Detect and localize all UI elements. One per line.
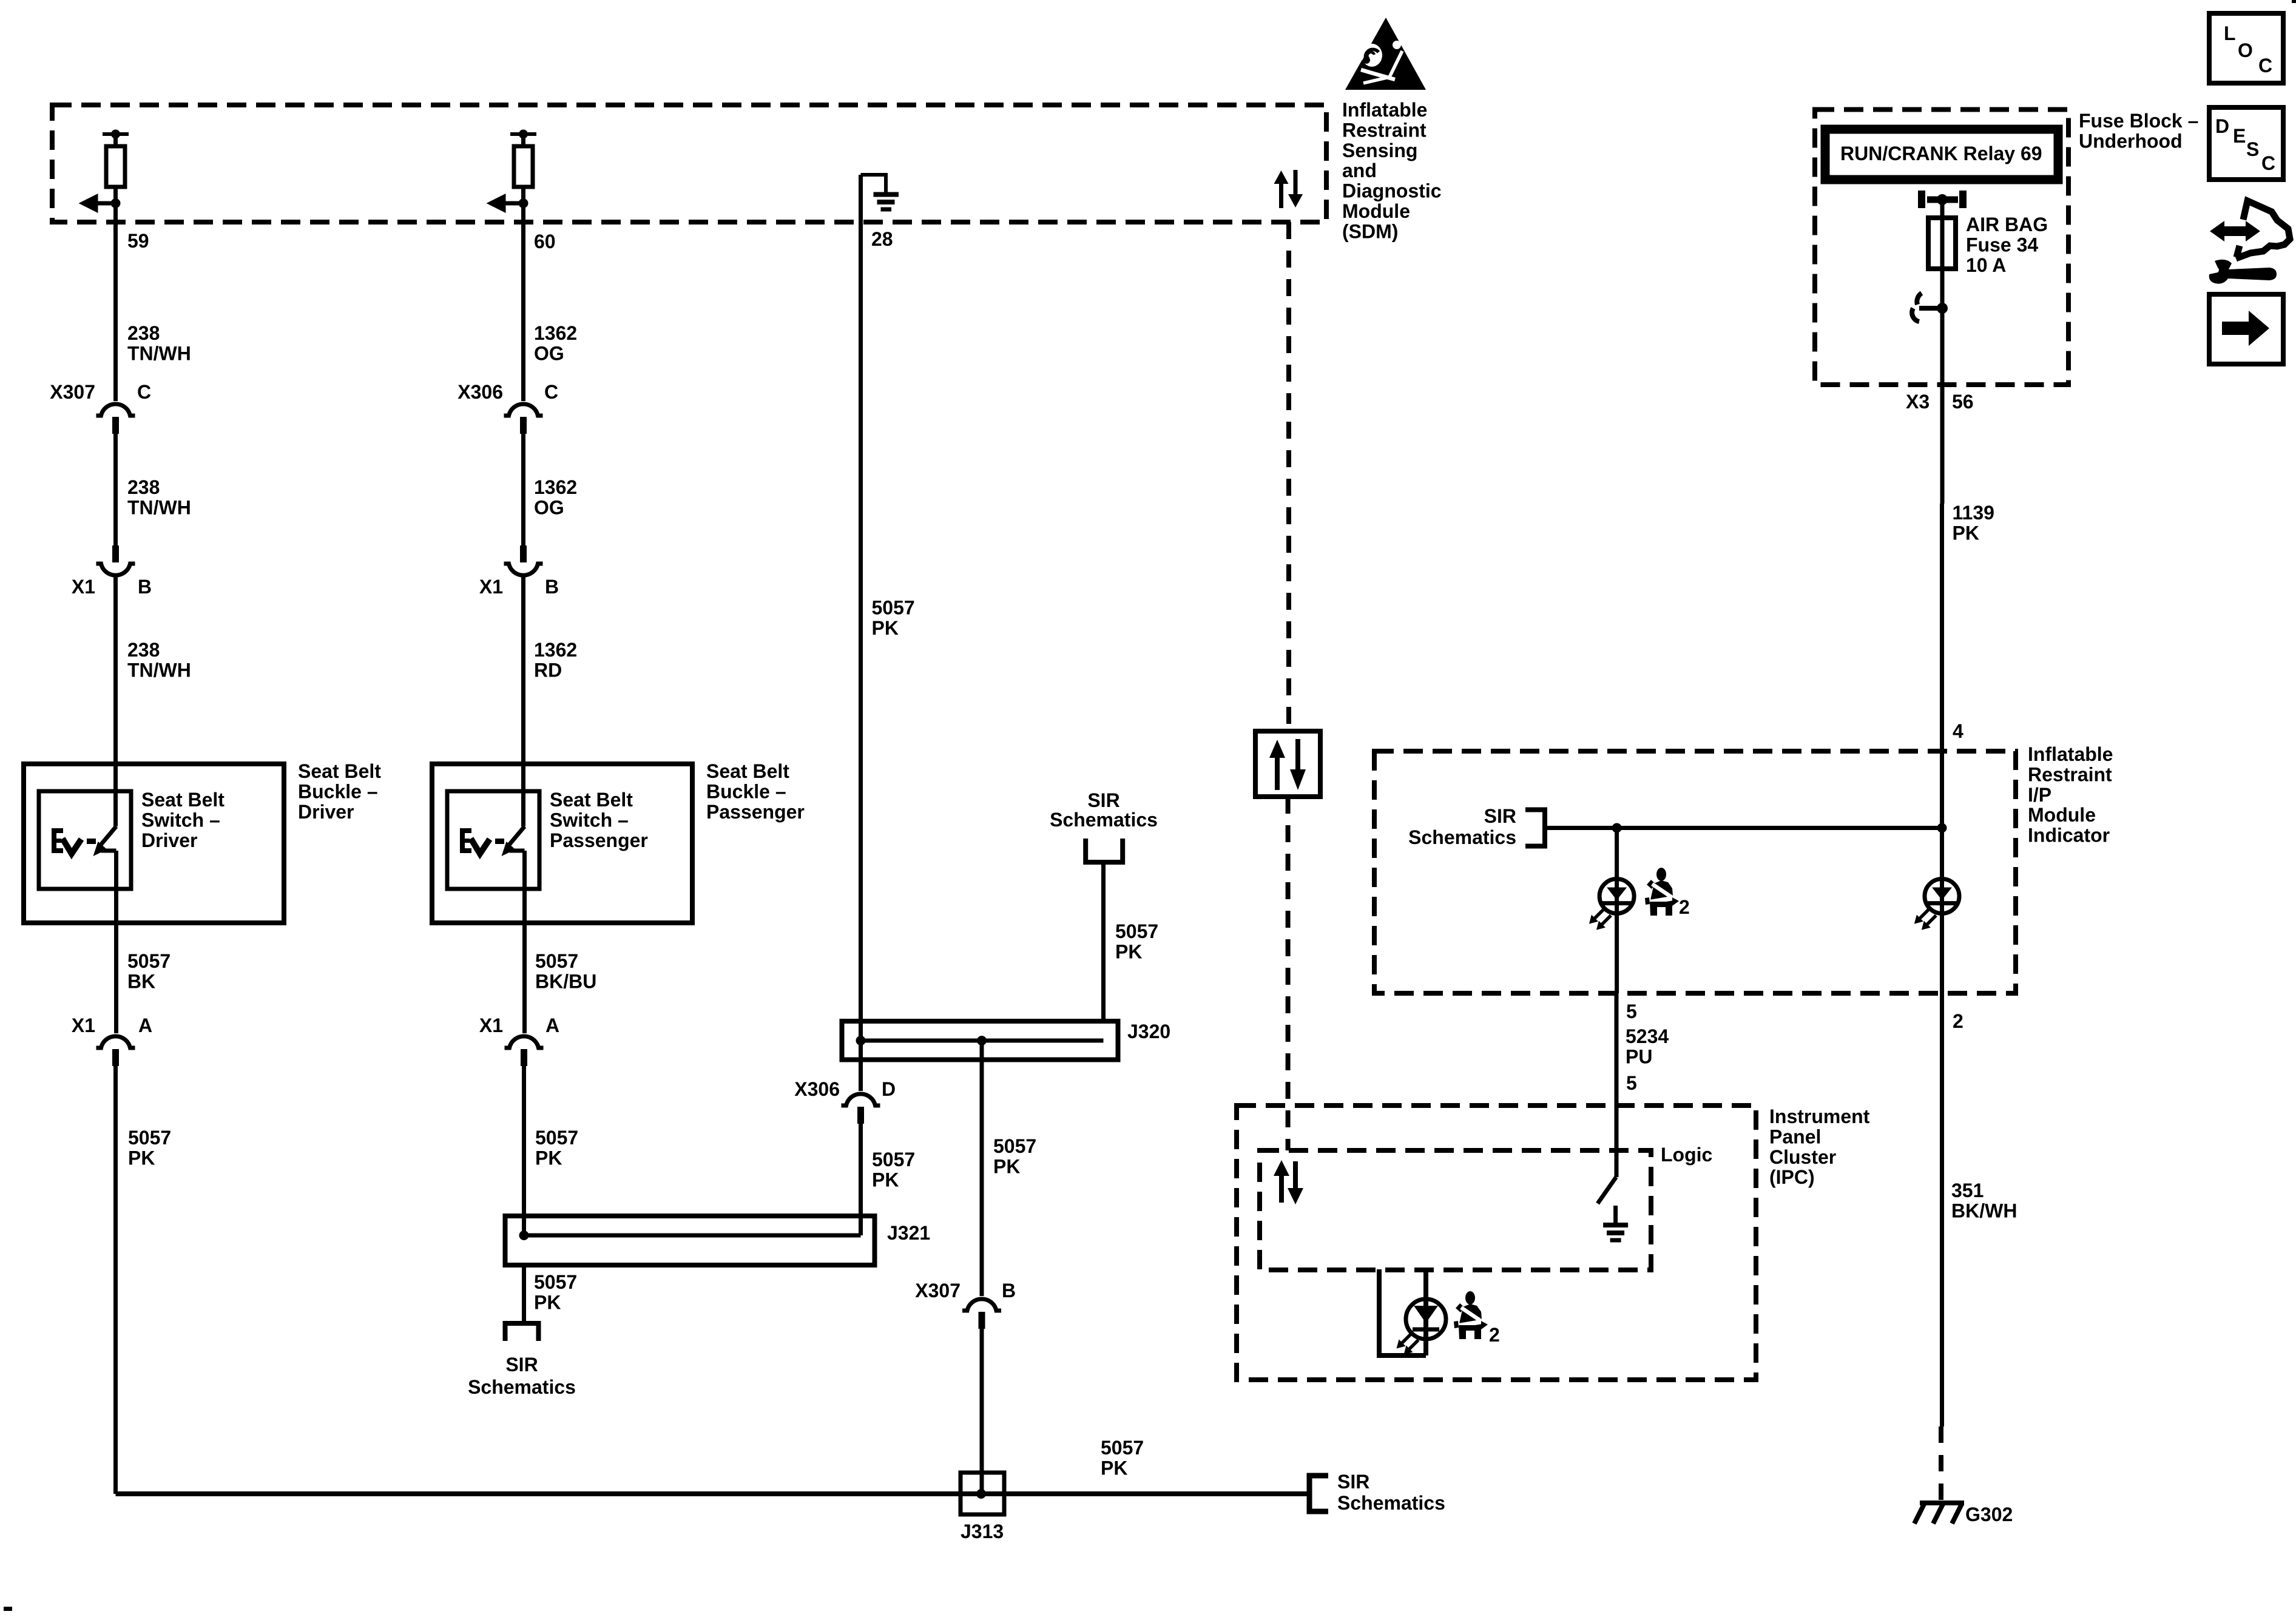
- fuse block underhood dashed box: [1815, 110, 2068, 385]
- SIR schematics pigtail (indicator): [1525, 810, 1545, 846]
- svg-text:5057: 5057: [872, 1149, 915, 1170]
- svg-text:PK: PK: [1953, 522, 1979, 544]
- svg-text:and: and: [1342, 160, 1377, 181]
- connector X306 cavity D: [842, 1094, 880, 1106]
- seat belt buckle driver outer box: [24, 764, 284, 923]
- svg-text:Module: Module: [2028, 804, 2096, 826]
- svg-text:PK: PK: [993, 1155, 1020, 1177]
- wire 5057 BK/BU (switch to X1-A passenger): [522, 851, 527, 1033]
- svg-text:X1: X1: [72, 576, 95, 598]
- wire 5057 PK (passenger to J321): [522, 1066, 526, 1218]
- LED3 IPC seat belt telltale: [1406, 1299, 1446, 1339]
- wire 1362 OG (X306 to X1): [521, 434, 525, 545]
- svg-text:5057: 5057: [1101, 1437, 1144, 1459]
- svg-text:RD: RD: [534, 659, 562, 681]
- dashed wire to G302: [1939, 1426, 1943, 1504]
- wire fuse to switch: [1940, 269, 1945, 308]
- svg-text:PK: PK: [1101, 1457, 1127, 1479]
- wire 5234 PU (indicator to IPC logic): [1615, 993, 1619, 1177]
- wire 60 (SDM to X306): [521, 203, 525, 401]
- svg-text:5057: 5057: [127, 950, 171, 972]
- svg-text:L: L: [2224, 22, 2236, 44]
- wire relay to fuse: [1940, 200, 1945, 218]
- svg-text:28: 28: [871, 228, 893, 250]
- svg-text:5: 5: [1626, 1001, 1637, 1022]
- svg-text:X3: X3: [1906, 391, 1930, 413]
- svg-text:S: S: [2246, 138, 2259, 160]
- svg-text:X1: X1: [479, 576, 503, 598]
- svg-text:56: 56: [1952, 391, 1974, 413]
- svg-text:60: 60: [534, 231, 556, 252]
- svg-text:Schematics: Schematics: [1408, 826, 1516, 848]
- wire 5057 PK (J320 to X306-D): [0, 0, 1, 1]
- wire 5057 PK (pigtail to J320): [1101, 862, 1106, 1021]
- svg-text:SIR: SIR: [1087, 789, 1119, 811]
- svg-text:5: 5: [1626, 1072, 1637, 1094]
- svg-text:Cluster: Cluster: [1769, 1146, 1836, 1168]
- svg-text:238: 238: [127, 639, 160, 661]
- svg-text:O: O: [2238, 39, 2253, 61]
- wire to LED1: [1615, 828, 1619, 994]
- page mark top right: [2292, 0, 2296, 3]
- svg-text:238: 238: [127, 322, 160, 344]
- ground symbol (IPC logic): [1613, 1206, 1618, 1223]
- wire 351 BK/WH (indicator to G302): [1940, 993, 1944, 1426]
- svg-text:TN/WH: TN/WH: [127, 342, 191, 364]
- svg-text:AIR BAG: AIR BAG: [1966, 214, 2048, 235]
- resistor R-passenger (SDM terminating resistor, pin 60): [510, 132, 536, 136]
- SDM dashed box (Inflatable Restraint Sensing and Diagnostic Module): [52, 105, 1326, 222]
- svg-text:(SDM): (SDM): [1342, 220, 1398, 242]
- hand/tools legend icon: [2210, 221, 2260, 241]
- svg-text:5057: 5057: [993, 1135, 1036, 1157]
- warning triangle icon (air bag caution): [1345, 18, 1426, 90]
- svg-text:10 A: 10 A: [1966, 254, 2006, 276]
- double-arrow serial data symbol inside SDM: [1279, 184, 1283, 208]
- svg-text:C: C: [544, 381, 558, 403]
- SIR schematics pigtail (bottom left): [505, 1323, 539, 1341]
- wire 1362 RD (X1 to switch): [521, 575, 525, 826]
- svg-text:Switch –: Switch –: [550, 809, 629, 831]
- seat belt icon (IPC): [1454, 1291, 1488, 1339]
- svg-text:PU: PU: [1626, 1045, 1652, 1067]
- svg-text:B: B: [138, 576, 152, 598]
- wire 1139 PK (X3-56 down to indicator): [1940, 504, 1944, 828]
- wire 238 TN/WH (X307 to X1): [113, 434, 118, 545]
- svg-text:Seat Belt: Seat Belt: [298, 760, 381, 782]
- switch SW-driver (seat belt switch symbol): [52, 828, 63, 853]
- connector X307 cavity C: [96, 404, 135, 416]
- wire 5057 PK pin 28 (SDM ground to J320): [859, 175, 863, 1091]
- svg-text:Panel: Panel: [1769, 1126, 1821, 1147]
- seat belt switch passenger inner box: [447, 791, 539, 889]
- svg-text:Switch –: Switch –: [141, 809, 220, 831]
- wire switch to X3: [1940, 308, 1945, 504]
- svg-text:X307: X307: [915, 1280, 961, 1301]
- svg-text:Inflatable: Inflatable: [2028, 743, 2113, 765]
- switch logic to ground: [1598, 1177, 1616, 1204]
- relay RUN/CRANK Relay 69 (label plate): [1825, 129, 2058, 180]
- wire indicator feed: [1545, 826, 1942, 830]
- svg-text:SIR: SIR: [505, 1354, 538, 1376]
- svg-text:5057: 5057: [872, 597, 915, 619]
- svg-text:PK: PK: [872, 617, 899, 639]
- wire 5057 BK (switch to X1-A): [114, 851, 118, 1033]
- svg-text:5057: 5057: [535, 1127, 578, 1149]
- LED2 air bag indicator: [1925, 879, 1959, 914]
- wire 5057 PK (X307-B to J313): [980, 1329, 984, 1494]
- svg-text:5234: 5234: [1626, 1025, 1669, 1047]
- relay output terminals: [1918, 191, 1925, 208]
- splice pack J321: [505, 1216, 875, 1265]
- svg-text:B: B: [1002, 1280, 1016, 1301]
- svg-text:2: 2: [1489, 1324, 1500, 1346]
- svg-text:J321: J321: [887, 1222, 930, 1244]
- svg-text:PK: PK: [1115, 940, 1142, 962]
- DESC legend box: [2209, 107, 2283, 180]
- dashed data line SDM to IPC: [1286, 222, 1291, 731]
- svg-text:PK: PK: [872, 1169, 899, 1190]
- svg-text:Seat Belt: Seat Belt: [550, 789, 633, 811]
- ground symbol inside SDM (pin 28 internal ground): [861, 175, 886, 192]
- connector X1 cavity B (driver): [112, 545, 119, 562]
- svg-text:BK: BK: [127, 970, 155, 992]
- svg-text:238: 238: [127, 476, 160, 498]
- wire 59 (SDM to X307): [113, 203, 118, 401]
- svg-text:I/P: I/P: [2028, 784, 2051, 806]
- logic dashed box: [1260, 1150, 1651, 1270]
- svg-text:Schematics: Schematics: [1050, 809, 1158, 831]
- svg-text:PK: PK: [535, 1147, 562, 1169]
- svg-text:Driver: Driver: [141, 829, 198, 851]
- connector X1 cavity A (driver): [96, 1036, 135, 1048]
- svg-text:2: 2: [1679, 896, 1690, 918]
- svg-text:X1: X1: [72, 1014, 95, 1036]
- switch contact symbol (fuse block): [1919, 306, 1942, 311]
- inflatable restraint I/P module indicator dashed box: [1374, 751, 2016, 993]
- svg-text:C: C: [137, 381, 151, 403]
- svg-text:Underhood: Underhood: [2079, 130, 2183, 152]
- svg-text:1362: 1362: [534, 322, 577, 344]
- svg-text:X307: X307: [50, 381, 95, 403]
- connector X1 cavity A (passenger): [505, 1036, 544, 1048]
- svg-text:Seat Belt: Seat Belt: [141, 789, 225, 811]
- svg-text:5057: 5057: [534, 1271, 577, 1293]
- svg-text:Schematics: Schematics: [1337, 1492, 1445, 1514]
- svg-text:Buckle –: Buckle –: [298, 780, 378, 802]
- svg-text:4: 4: [1953, 720, 1963, 742]
- svg-text:5057: 5057: [1115, 920, 1158, 942]
- svg-text:Schematics: Schematics: [468, 1376, 576, 1398]
- svg-text:Driver: Driver: [298, 801, 354, 823]
- seat belt buckle passenger outer box: [432, 764, 692, 923]
- wire 238 TN/WH (X1 to switch): [113, 575, 118, 826]
- svg-text:TN/WH: TN/WH: [127, 659, 191, 681]
- svg-text:SIR: SIR: [1337, 1471, 1369, 1493]
- arrow legend box: [2209, 294, 2283, 364]
- splice pack J320: [842, 1021, 1118, 1060]
- splice J313: [961, 1473, 1004, 1514]
- svg-text:Restraint: Restraint: [1342, 119, 1427, 141]
- svg-text:(IPC): (IPC): [1769, 1166, 1815, 1188]
- svg-text:SIR: SIR: [1484, 805, 1516, 827]
- svg-text:OG: OG: [534, 496, 564, 518]
- svg-text:E: E: [2233, 125, 2246, 147]
- svg-text:351: 351: [1951, 1180, 1984, 1201]
- svg-text:BK/WH: BK/WH: [1951, 1200, 2017, 1221]
- svg-text:5057: 5057: [128, 1127, 171, 1149]
- SIR schematics pigtail (above J320): [1086, 839, 1123, 862]
- wire 5057 PK (J320 to X307-B): [980, 1041, 984, 1296]
- svg-text:TN/WH: TN/WH: [127, 496, 191, 518]
- svg-text:Sensing: Sensing: [1342, 140, 1417, 161]
- svg-text:Seat Belt: Seat Belt: [706, 760, 789, 782]
- fuse F34 AIR BAG Fuse 34 10A: [1928, 218, 1956, 269]
- svg-text:59: 59: [127, 230, 149, 252]
- wire to LED2: [1940, 828, 1944, 994]
- svg-text:Restraint: Restraint: [2028, 763, 2112, 785]
- switch SW-passenger (seat belt switch symbol): [460, 828, 471, 853]
- svg-text:Module: Module: [1342, 200, 1410, 222]
- IPC seat belt telltale box: [1379, 1269, 1426, 1355]
- LED1 fasten seat belt indicator: [1599, 879, 1634, 914]
- svg-text:J313: J313: [961, 1521, 1004, 1542]
- svg-text:Indicator: Indicator: [2028, 825, 2110, 846]
- arrow output pin 60: [505, 201, 524, 206]
- svg-text:Diagnostic: Diagnostic: [1342, 180, 1442, 202]
- svg-text:5057: 5057: [535, 950, 578, 972]
- svg-text:Instrument: Instrument: [1769, 1106, 1870, 1127]
- svg-text:X306: X306: [794, 1078, 840, 1100]
- svg-text:Fuse 34: Fuse 34: [1966, 234, 2038, 255]
- svg-text:1362: 1362: [534, 639, 577, 661]
- svg-text:OG: OG: [534, 342, 564, 364]
- wire IPC telltale: [1423, 1269, 1428, 1355]
- svg-text:Inflatable: Inflatable: [1342, 99, 1427, 121]
- LOC legend box: [2209, 13, 2283, 83]
- connector X307 cavity B: [962, 1299, 1001, 1311]
- page mark bottom left: [4, 1607, 12, 1611]
- seat belt switch driver inner box: [39, 791, 131, 889]
- svg-text:2: 2: [1953, 1010, 1963, 1032]
- ground G302 (chassis ground): [1920, 1501, 1964, 1505]
- serial data box with arrows: [1255, 731, 1320, 797]
- svg-text:J320: J320: [1127, 1021, 1170, 1042]
- svg-text:X306: X306: [458, 381, 503, 403]
- serial data arrows (logic): [1279, 1176, 1284, 1203]
- svg-text:Buckle –: Buckle –: [706, 780, 786, 802]
- wire 5057 PK (X306-D to J321): [859, 1124, 863, 1235]
- connector X306 cavity C: [504, 404, 543, 416]
- svg-text:PK: PK: [128, 1147, 155, 1169]
- svg-text:Passenger: Passenger: [550, 829, 648, 851]
- svg-text:PK: PK: [534, 1291, 561, 1313]
- svg-text:A: A: [138, 1014, 152, 1036]
- svg-text:C: C: [2261, 152, 2275, 174]
- svg-text:A: A: [545, 1014, 559, 1036]
- svg-text:X1: X1: [479, 1014, 503, 1036]
- resistor R-driver (SDM terminating resistor, pin 59): [103, 132, 129, 136]
- svg-text:D: D: [2215, 115, 2229, 137]
- svg-text:RUN/CRANK Relay 69: RUN/CRANK Relay 69: [1840, 143, 2042, 164]
- SIR schematics pigtail (bottom right): [1309, 1476, 1328, 1511]
- svg-text:BK/BU: BK/BU: [535, 970, 596, 992]
- svg-text:Logic: Logic: [1661, 1144, 1712, 1166]
- svg-text:C: C: [2258, 55, 2272, 76]
- seat belt icon (indicator): [1645, 868, 1679, 916]
- wire 5057 PK (J321 to SIR pigtail): [522, 1265, 526, 1323]
- svg-text:D: D: [882, 1078, 896, 1100]
- svg-text:Passenger: Passenger: [706, 801, 805, 823]
- wire 5057 PK (bottom run): [116, 1491, 1310, 1496]
- svg-text:1362: 1362: [534, 476, 577, 498]
- svg-text:G302: G302: [1965, 1504, 2013, 1525]
- connector X1 cavity B (passenger): [520, 545, 527, 562]
- instrument panel cluster IPC dashed box: [1237, 1106, 1756, 1380]
- svg-text:1139: 1139: [1953, 502, 1994, 524]
- svg-text:Fuse Block –: Fuse Block –: [2079, 110, 2198, 132]
- svg-text:B: B: [545, 576, 559, 598]
- arrow output pin 59: [97, 201, 116, 206]
- wire 5057 PK (driver to splice): [113, 1066, 118, 1494]
